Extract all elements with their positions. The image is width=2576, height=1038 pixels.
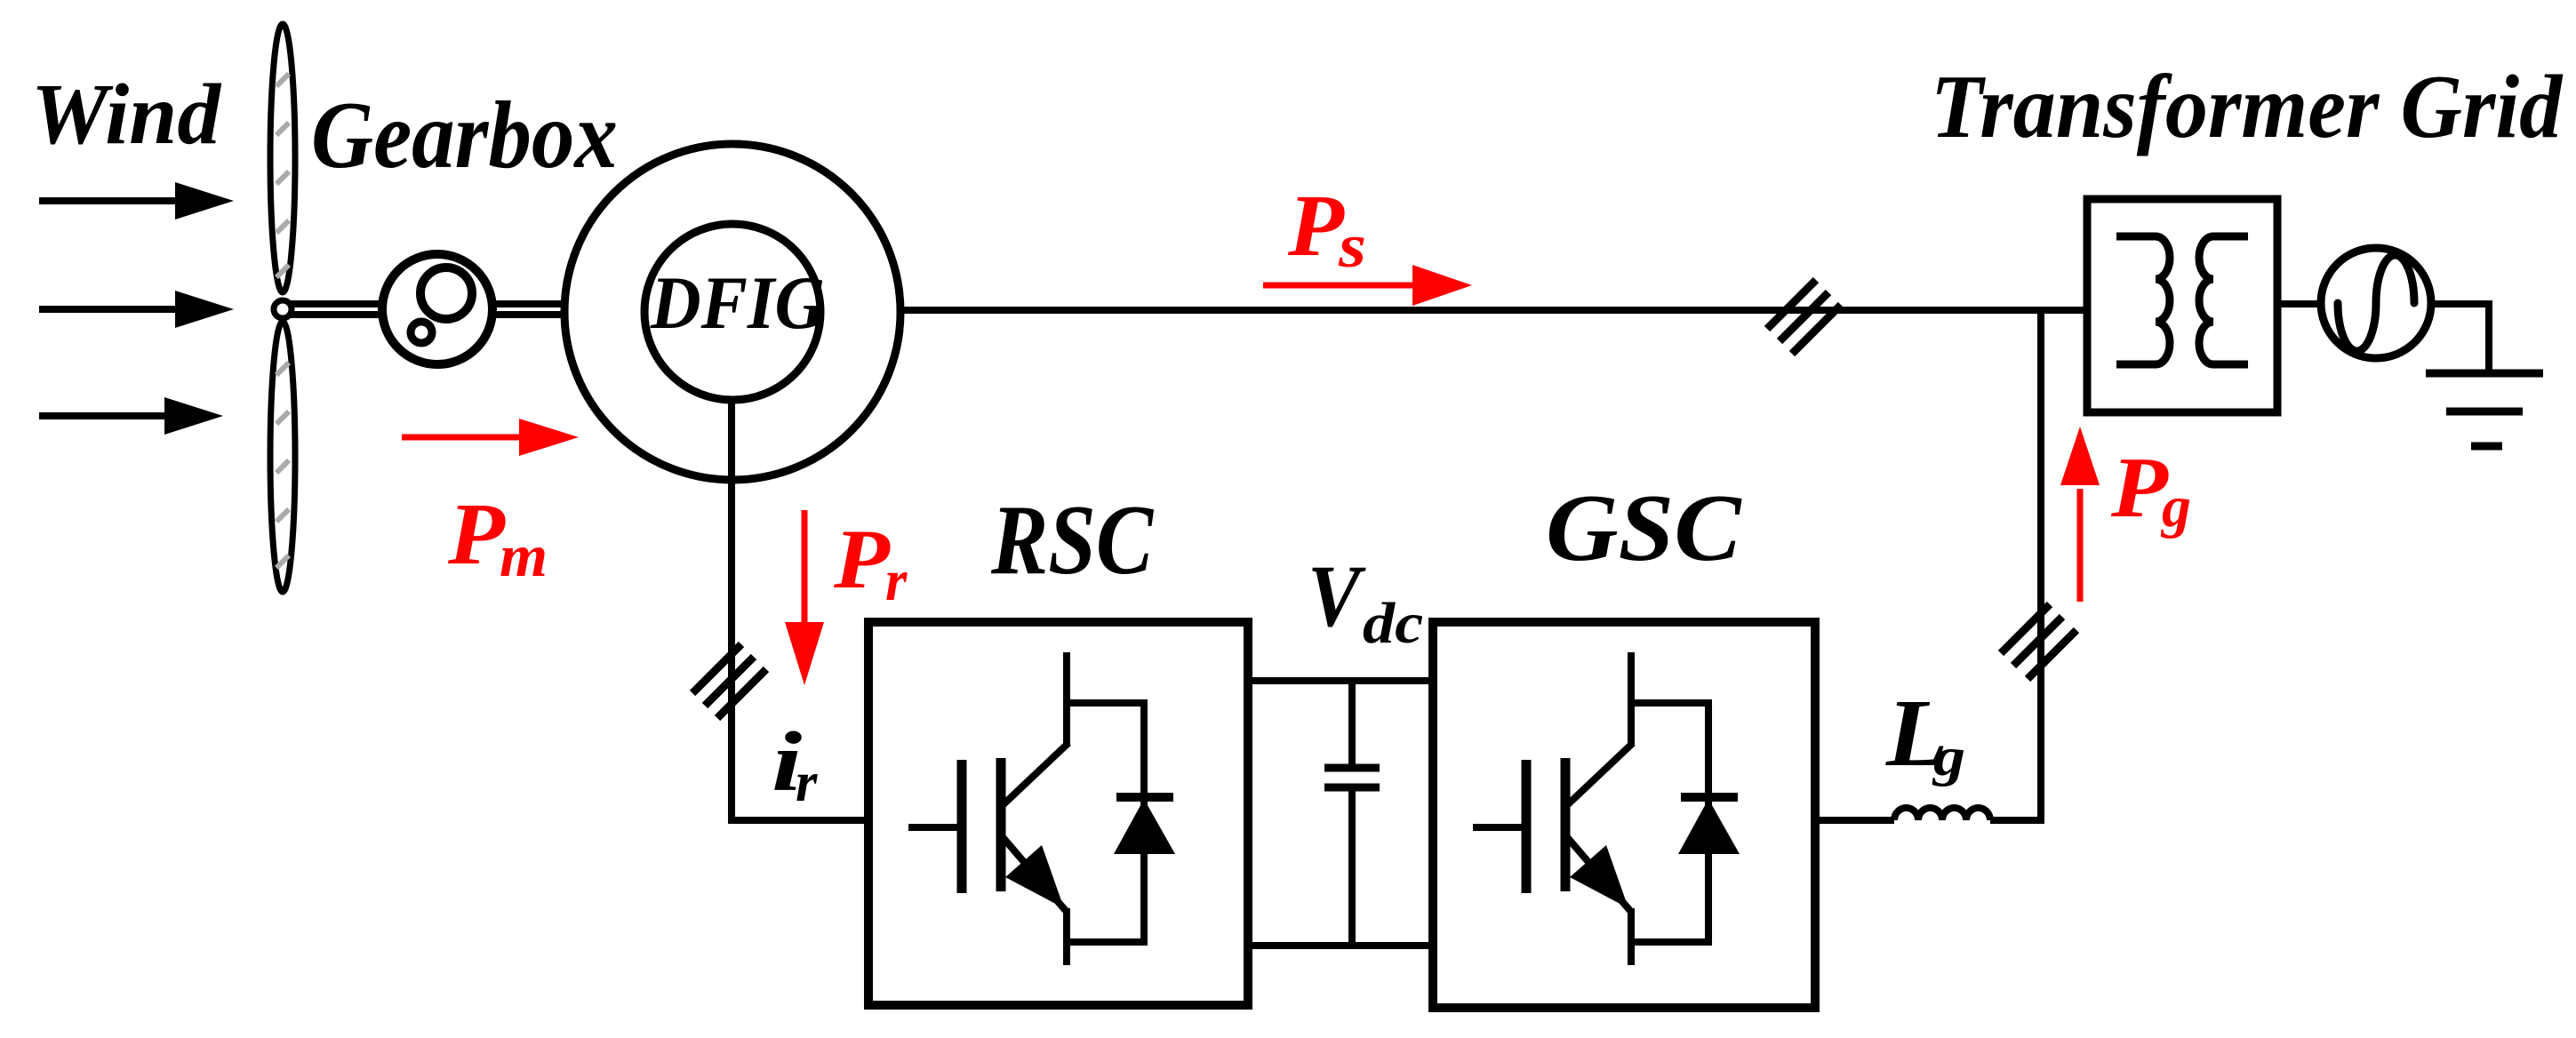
wire transformer to grid source xyxy=(2277,300,2323,307)
RSC tie collector to diode cathode xyxy=(1063,699,1148,707)
RSC IGBT collector diagonal xyxy=(1003,743,1068,805)
svg-text:m: m xyxy=(500,523,548,589)
three-phase slashes on grid-side wire xyxy=(2001,604,2076,679)
wire AC source to ground xyxy=(2431,304,2489,373)
svg-text:GSC: GSC xyxy=(1546,475,1742,580)
GSC IGBT collector stub xyxy=(1628,652,1635,747)
wire inductor to corner xyxy=(1990,817,2044,824)
svg-text:dc: dc xyxy=(1363,591,1423,655)
capacitor bottom lead xyxy=(1348,787,1356,946)
label Pr xyxy=(833,514,908,613)
rotor wire to RSC xyxy=(728,817,868,824)
capacitor plates xyxy=(1324,768,1380,787)
RSC IGBT emitter arrow xyxy=(1005,845,1064,908)
RSC tie emitter to diode anode xyxy=(1063,938,1148,946)
wind arrow 3 xyxy=(39,397,223,435)
shaft turbine-gearbox (double line) xyxy=(290,304,384,315)
turbine blade bottom xyxy=(270,322,295,592)
GSC tie collector to diode cathode xyxy=(1628,699,1712,707)
wind arrow 2 xyxy=(39,291,234,328)
GSC IGBT gate bar xyxy=(1522,760,1532,893)
RSC diode wire xyxy=(1140,703,1148,942)
GSC diode triangle xyxy=(1678,799,1740,854)
DC-link capacitor top lead xyxy=(1348,681,1356,768)
svg-text:Transformer Grid: Transformer Grid xyxy=(1931,58,2564,157)
converter box RSC xyxy=(868,622,1248,1005)
label Ps xyxy=(1287,177,1366,281)
red arrow Ps xyxy=(1263,265,1472,306)
three-phase slashes on rotor wire xyxy=(692,644,766,718)
GSC IGBT emitter stub xyxy=(1628,908,1635,965)
shaft gearbox-DFIG (double line) xyxy=(492,304,571,315)
svg-text:RSC: RSC xyxy=(990,484,1154,595)
stator wire DFIG to transformer xyxy=(900,307,2087,314)
svg-text:r: r xyxy=(885,548,908,613)
red arrow Pm xyxy=(402,419,579,456)
red arrow Pr xyxy=(785,510,824,685)
red arrow Pg xyxy=(2060,427,2100,602)
RSC IGBT emitter diagonal xyxy=(1003,837,1067,912)
converter box GSC xyxy=(1433,622,1815,1008)
svg-text:Gearbox: Gearbox xyxy=(311,82,618,188)
DC bus top xyxy=(1248,677,1433,684)
svg-text:s: s xyxy=(1338,212,1366,281)
svg-text:g: g xyxy=(2160,475,2191,539)
label Pm xyxy=(447,485,548,589)
svg-text:g: g xyxy=(1932,727,1965,787)
RSC IGBT collector stub xyxy=(1063,652,1070,747)
hub xyxy=(274,300,292,318)
svg-text:P: P xyxy=(833,514,892,606)
RSC diode cathode bar xyxy=(1116,793,1173,802)
label Vdc xyxy=(1308,546,1423,655)
DC bus bottom xyxy=(1248,942,1433,949)
turbine blade top xyxy=(270,24,295,292)
svg-text:P: P xyxy=(447,485,507,583)
svg-text:Wind: Wind xyxy=(31,67,222,163)
GSC IGBT gate lead xyxy=(1473,824,1522,831)
transformer secondary coil xyxy=(2199,236,2248,364)
GSC diode wire xyxy=(1705,703,1712,942)
svg-text:DFIG: DFIG xyxy=(650,260,825,344)
GSC IGBT body bar xyxy=(1561,758,1571,891)
GSC IGBT emitter diagonal xyxy=(1567,837,1631,912)
RSC IGBT gate bar xyxy=(957,760,967,893)
ground symbol xyxy=(2426,373,2543,446)
three-phase slashes on stator wire xyxy=(1767,280,1841,354)
label ir xyxy=(772,715,819,813)
RSC IGBT body bar xyxy=(996,758,1006,891)
grid AC source circle xyxy=(2321,248,2431,358)
transformer primary coil xyxy=(2116,236,2170,364)
DFIG machine inner circle xyxy=(644,224,820,400)
label Pg xyxy=(2110,439,2191,539)
RSC IGBT gate lead xyxy=(908,824,957,831)
rotor wire from DFIG down xyxy=(728,400,735,824)
DFIG machine outer circle xyxy=(564,144,900,480)
svg-text:V: V xyxy=(1308,546,1366,645)
RSC diode triangle xyxy=(1114,799,1175,854)
grid-side vertical wire xyxy=(2037,310,2044,824)
svg-text:P: P xyxy=(1287,177,1345,275)
transformer box xyxy=(2087,199,2277,412)
svg-text:P: P xyxy=(2110,439,2169,535)
label Lg xyxy=(1885,681,1965,787)
GSC IGBT collector diagonal xyxy=(1567,743,1633,805)
gearbox symbol xyxy=(382,254,492,364)
wire GSC to inductor xyxy=(1815,817,1894,824)
svg-text:r: r xyxy=(796,751,819,814)
inductor Lg xyxy=(1894,808,1990,820)
AC sine symbol xyxy=(2338,255,2414,351)
GSC tie emitter to diode anode xyxy=(1628,938,1712,946)
wind arrow 1 xyxy=(39,182,234,220)
RSC IGBT emitter stub xyxy=(1063,908,1070,965)
GSC diode cathode bar xyxy=(1681,793,1738,802)
GSC IGBT emitter arrow xyxy=(1570,845,1628,908)
